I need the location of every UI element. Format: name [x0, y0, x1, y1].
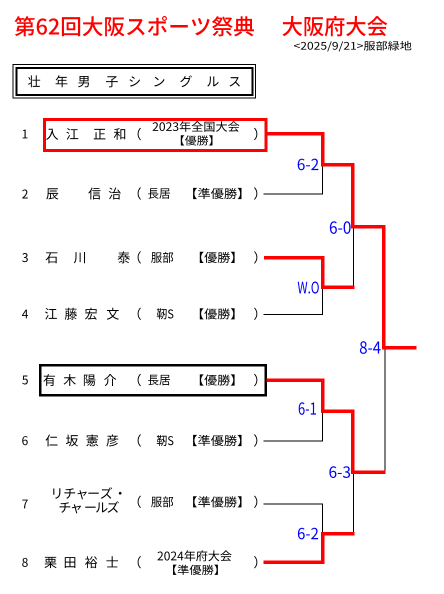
- player5 name: [43, 374, 55, 386]
- score 6-3 sf2: [329, 466, 336, 478]
- red v2 sf1: [351, 163, 355, 229]
- title main: [15, 16, 35, 36]
- score W.O qf2: [298, 282, 308, 294]
- red row1: [267, 132, 325, 136]
- player7 club: [138, 496, 141, 508]
- player1 box: [45, 120, 267, 151]
- wire v1 m56: [322, 411, 323, 441]
- red row5: [267, 378, 325, 382]
- seed 6: [22, 436, 27, 445]
- red j34: [321, 285, 355, 289]
- seed 4: [22, 310, 28, 319]
- red j12: [321, 163, 355, 167]
- player2 club: [138, 187, 141, 199]
- red v1 m56: [321, 378, 325, 412]
- player5 club: [138, 374, 141, 386]
- wire row7: [264, 504, 323, 505]
- red j56: [321, 409, 355, 413]
- title right: [282, 16, 302, 36]
- wire v3 final: [385, 348, 386, 474]
- event text: [28, 75, 40, 87]
- score 6-0 sf1: [330, 221, 337, 234]
- player8 name: [45, 557, 57, 568]
- player4 club: [138, 308, 141, 320]
- player4 name: [45, 308, 57, 320]
- red v1 m78: [321, 532, 325, 564]
- score 6-1 qf3: [299, 402, 305, 415]
- player6 club: [138, 434, 141, 446]
- red v3 final: [382, 225, 386, 349]
- score 6-2 qf1: [298, 159, 305, 171]
- red v2 sf2: [351, 409, 355, 474]
- seed 2: [22, 190, 28, 199]
- player3 club: [138, 251, 141, 263]
- player6 name: [46, 435, 58, 447]
- player8 club: [138, 556, 141, 568]
- wire row4: [264, 314, 323, 315]
- score 8-4 final: [360, 341, 367, 354]
- score 6-2 qf4: [298, 528, 305, 540]
- wire v1 m34: [322, 287, 323, 315]
- seed 1: [23, 130, 28, 139]
- red s2: [351, 471, 385, 475]
- red champion: [382, 346, 417, 350]
- wire row6: [264, 440, 323, 441]
- red row3: [264, 256, 325, 260]
- red v1 m34: [321, 256, 325, 289]
- red j78: [321, 532, 355, 536]
- red row8: [264, 561, 325, 565]
- red s1: [351, 225, 385, 229]
- seed 3: [22, 253, 28, 262]
- player3 name: [46, 252, 58, 263]
- red v1 m12: [321, 132, 325, 167]
- event box inner: [17, 68, 253, 95]
- seed 5: [22, 376, 28, 385]
- wire v1 m12: [322, 165, 323, 194]
- player7 name line2: [60, 502, 71, 513]
- seed 7: [22, 500, 28, 509]
- player1 club: [138, 128, 141, 140]
- seed 8: [22, 558, 28, 567]
- wire v1 m78: [322, 504, 323, 534]
- wire v2 sf1: [353, 227, 354, 289]
- player1 name: [46, 129, 58, 140]
- subtitle: [294, 43, 300, 48]
- event box outer: [13, 65, 256, 99]
- player7 name line1: [53, 488, 60, 498]
- player5 box: [40, 365, 265, 395]
- wire v2 sf2: [353, 472, 354, 535]
- wire row2: [264, 193, 323, 194]
- player2 name: [46, 188, 58, 199]
